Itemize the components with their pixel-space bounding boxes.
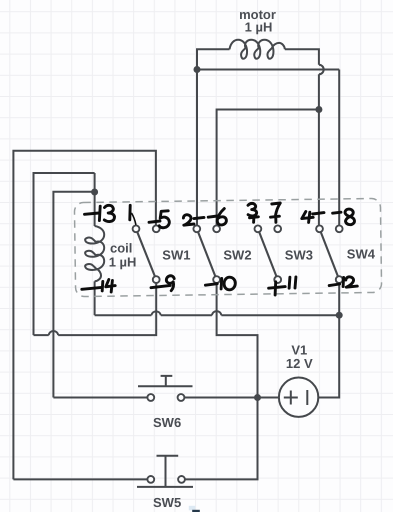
switch SW1 lever bbox=[136, 229, 156, 280]
switch SW3 terminal 11 bbox=[274, 276, 281, 283]
pin label 12 bbox=[342, 277, 345, 286]
pin tick 3 bbox=[250, 217, 259, 223]
svg-text:SW4: SW4 bbox=[347, 247, 376, 262]
switch SW4 terminal 4 bbox=[316, 225, 323, 232]
pushbutton SW5 (normally closed) bbox=[137, 456, 193, 487]
switch SW4 lever bbox=[320, 229, 340, 280]
svg-text:1 µH: 1 µH bbox=[109, 255, 137, 270]
wire SW6 right to junction to V1 bbox=[185, 397, 279, 399]
switch SW2 lever bbox=[197, 229, 217, 280]
pin label 6 bbox=[217, 209, 226, 225]
pin tick 10 bbox=[205, 284, 217, 286]
junction dot wire A to 12 bbox=[336, 312, 343, 319]
bottom edge artifact bbox=[189, 506, 196, 511]
svg-text:SW2: SW2 bbox=[223, 248, 251, 263]
switch SW4 terminal 8 bbox=[336, 225, 343, 232]
switch SW2 terminal 6 bbox=[213, 225, 220, 232]
pin label 13 bbox=[98, 206, 102, 220]
wire motor top bbox=[197, 49, 319, 69]
pin tick 4 bbox=[313, 213, 324, 214]
svg-text:12 V: 12 V bbox=[286, 356, 313, 371]
switch SW4 terminal 12 bbox=[336, 276, 343, 283]
pin tick 6 bbox=[208, 216, 217, 217]
wire terminal 9 down and wire B to vertical 33.5 with hop over 53.4 bbox=[34, 283, 157, 335]
pin label 14 bbox=[101, 281, 105, 291]
pin label 11 bbox=[289, 277, 296, 288]
switch SW2 terminal 2 bbox=[193, 225, 200, 232]
wire A (terminal 14 net to 12/V1+) with hops over 156 and 216.6 verticals bbox=[95, 311, 340, 315]
svg-text:1 µH: 1 µH bbox=[245, 20, 273, 35]
voltage source V1 bbox=[279, 378, 318, 417]
wire vertical 319 from motor to junction and terminal 4 bbox=[318, 74, 320, 225]
wire terminal 12 down to V1 right bbox=[318, 283, 339, 397]
wire terminal 6 to node at 319 bbox=[217, 110, 319, 226]
pin tick 9 bbox=[151, 285, 170, 287]
wire motor-left vertical to terminal 2 bbox=[196, 70, 198, 226]
switch SW3 lever bbox=[258, 229, 278, 280]
pin tick 12 bbox=[329, 284, 339, 286]
pin label 4 bbox=[302, 212, 313, 223]
switch SW1 terminal 9 bbox=[153, 276, 160, 283]
wire SW5 right up to junction bbox=[185, 398, 258, 480]
wire top-left row 2 (coil top to vertical 33.5) bbox=[34, 173, 95, 335]
switch SW3 terminal 3 bbox=[255, 225, 262, 232]
pin tick 14 bbox=[82, 287, 102, 289]
junction dot motor bottom left bbox=[194, 66, 201, 73]
pushbutton SW6 (normally open) bbox=[138, 376, 193, 386]
wire vertical 339 from motor-bottom corner to terminal 8 bbox=[338, 70, 340, 226]
svg-text:SW6: SW6 bbox=[153, 415, 181, 430]
svg-text:SW5: SW5 bbox=[153, 495, 181, 510]
junction dot coil top bbox=[91, 189, 98, 196]
svg-text:SW3: SW3 bbox=[285, 247, 313, 262]
wire terminal 10 down to SW6/V1 junction bbox=[217, 283, 258, 397]
junction dot node 4/6 bbox=[315, 106, 322, 113]
wire top-left row 1 (terminal 5 to left rail) bbox=[13, 151, 156, 480]
wire SW6 left bbox=[53, 397, 147, 399]
pin label 5 bbox=[159, 211, 169, 228]
handwritten pin annotations bbox=[82, 203, 358, 295]
wire SW5 left bbox=[13, 478, 147, 480]
pin label 1 (SW1) bbox=[128, 205, 131, 220]
inductor coil (relay coil 1 uH) bbox=[85, 226, 104, 281]
pin label 8 bbox=[345, 209, 354, 225]
wire coil bottom to wire A bbox=[94, 281, 96, 315]
switch SW1 terminal 1 bbox=[133, 225, 140, 232]
inductor motor (1 uH) bbox=[230, 40, 285, 59]
pin tick 7 bbox=[271, 216, 280, 222]
pin label 3 bbox=[248, 203, 257, 216]
junction dot SW6/V1/SW5 bbox=[254, 394, 261, 401]
wire motor bottom (node to terminals 2 and 8) with hop of vertical 319 bbox=[197, 65, 339, 75]
switch SW1 terminal 5 bbox=[153, 225, 160, 232]
pin tick 13 bbox=[85, 213, 100, 214]
wire coil top bbox=[94, 173, 96, 226]
dashed selection box around relay bbox=[74, 198, 381, 296]
switch SW3 terminal 7 bbox=[274, 225, 281, 232]
pin label 2 bbox=[183, 215, 194, 225]
pin label 9 bbox=[166, 276, 174, 291]
wire top-left row 3 (coil top to vertical 53.4) bbox=[53, 192, 94, 398]
pin label 10 bbox=[220, 278, 223, 289]
pin tick 5 bbox=[149, 221, 160, 222]
pin tick 8 bbox=[333, 212, 341, 213]
pin label 7 bbox=[272, 203, 281, 215]
pin tick 2 bbox=[194, 217, 204, 218]
svg-text:SW1: SW1 bbox=[162, 248, 190, 263]
pin tick 11 cross bbox=[269, 282, 286, 295]
switch SW2 terminal 10 bbox=[213, 276, 220, 283]
svg-text:coil: coil bbox=[110, 240, 132, 255]
